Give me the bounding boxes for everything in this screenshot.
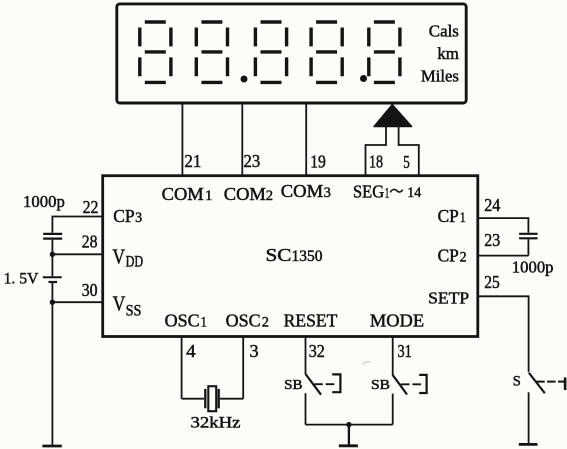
svg-text:1: 1 (205, 188, 212, 204)
svg-text:V: V (113, 292, 126, 316)
svg-text:CP: CP (438, 246, 459, 266)
svg-text:2: 2 (460, 250, 467, 266)
svg-text:3: 3 (324, 185, 331, 201)
svg-text:Cals: Cals (429, 22, 459, 41)
svg-text:COM: COM (162, 184, 204, 204)
svg-text:24: 24 (484, 195, 500, 215)
svg-text:S: S (513, 373, 521, 389)
svg-text:2: 2 (266, 188, 273, 204)
svg-text:km: km (437, 44, 459, 63)
svg-text:14: 14 (407, 185, 422, 201)
svg-text:1: 1 (460, 210, 466, 226)
svg-text:31: 31 (398, 341, 412, 361)
svg-text:23: 23 (244, 151, 261, 171)
svg-text:30: 30 (82, 280, 98, 300)
svg-text:CP: CP (113, 206, 135, 226)
svg-text:2: 2 (262, 314, 269, 330)
svg-text:32: 32 (309, 341, 325, 361)
svg-text:25: 25 (484, 272, 500, 292)
svg-text:1350: 1350 (292, 248, 323, 265)
svg-text:19: 19 (310, 152, 326, 172)
svg-text:CP: CP (438, 206, 459, 226)
svg-text:4: 4 (186, 341, 196, 361)
svg-text:SEG: SEG (353, 181, 384, 201)
svg-text:COM: COM (224, 184, 266, 204)
svg-text:1000p: 1000p (512, 258, 554, 277)
svg-text:23: 23 (484, 230, 500, 250)
svg-text:Miles: Miles (421, 67, 459, 86)
svg-text:SETP: SETP (428, 288, 469, 307)
svg-text:COM: COM (281, 181, 324, 201)
svg-text:V: V (112, 245, 125, 269)
svg-text:OSC: OSC (226, 310, 261, 330)
svg-text:SC: SC (266, 245, 292, 265)
svg-text:22: 22 (83, 197, 99, 217)
svg-text:1000p: 1000p (23, 192, 65, 211)
svg-text:32kHz: 32kHz (191, 414, 241, 431)
svg-text:1: 1 (201, 314, 207, 330)
svg-text:RESET: RESET (284, 310, 338, 330)
svg-text:18: 18 (369, 152, 383, 172)
svg-text:SS: SS (126, 302, 142, 319)
svg-text:21: 21 (184, 151, 201, 171)
svg-text:MODE: MODE (370, 310, 424, 330)
svg-text:DD: DD (126, 254, 144, 271)
svg-text:3: 3 (135, 210, 142, 226)
svg-text:1. 5V: 1. 5V (4, 271, 39, 288)
svg-text:SB: SB (284, 377, 302, 392)
svg-text:3: 3 (250, 341, 259, 361)
svg-text:5: 5 (403, 152, 410, 172)
svg-text:28: 28 (82, 231, 98, 251)
svg-text:OSC: OSC (165, 310, 200, 330)
svg-text:1: 1 (385, 185, 390, 201)
svg-text:SB: SB (371, 377, 390, 392)
